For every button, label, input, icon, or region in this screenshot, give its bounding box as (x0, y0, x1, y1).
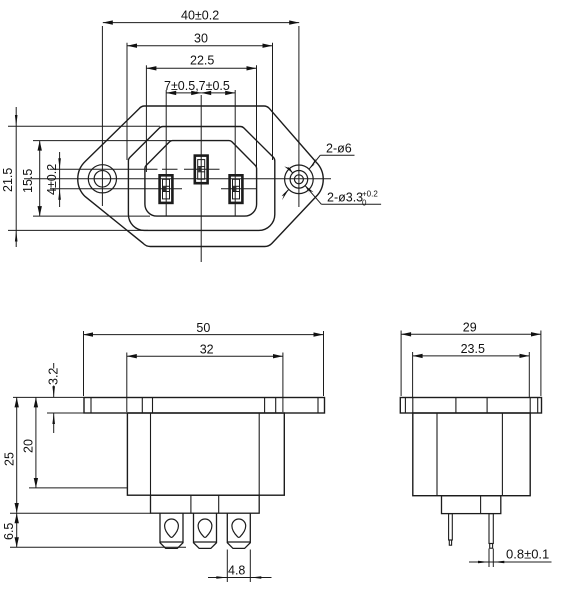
svg-text:2-ø3.3: 2-ø3.3 (327, 191, 363, 205)
left pin vertical crosshair / 7 extension (165, 90, 167, 216)
svg-text:40±0.2: 40±0.2 (181, 9, 219, 23)
svg-text:3.2: 3.2 (47, 368, 61, 385)
svg-text:+0.2: +0.2 (362, 190, 378, 199)
svg-text:0: 0 (362, 199, 367, 208)
top view: outer flange outline (78, 106, 323, 247)
dimension 7±0.5 7±0.5 (166, 92, 235, 94)
svg-text:0.8±0.1: 0.8±0.1 (506, 547, 549, 562)
top view: middle body outline 30x21.5 (128, 126, 274, 230)
body box (413, 413, 530, 496)
right mounting hole (ø6 outer) (285, 165, 314, 194)
top view: recess outline 22.5x15.5 (145, 141, 257, 217)
dimension 29 (401, 331, 541, 397)
L/N pin horizontal center line / 4±0.2 lower extension (50, 188, 182, 190)
svg-text:20: 20 (22, 439, 36, 453)
svg-text:25: 25 (3, 452, 17, 466)
dimension 40±0.2 (103, 22, 299, 24)
step block (442, 496, 501, 514)
svg-text:6.5: 6.5 (2, 523, 16, 540)
svg-text:32: 32 (200, 343, 214, 357)
right pin horizontal crosshair (221, 188, 256, 190)
left pin (blade) (160, 175, 173, 203)
flange plate (side view) (84, 398, 325, 414)
right hole vertical center line / 40 extension (298, 26, 300, 207)
dimension 30 (127, 43, 273, 160)
right pin (blade) (230, 175, 243, 203)
dimension 6.5 (vertical) (10, 513, 186, 547)
dimension 21.5 (vertical, left) (8, 107, 160, 247)
flange plate tick lines (91, 398, 318, 414)
flange plate tick lines (405, 398, 537, 414)
body internal wall right (258, 413, 260, 495)
vertical center line of drawing (200, 95, 202, 262)
svg-text:21.5: 21.5 (1, 168, 15, 192)
right pin vertical crosshair / 7 extension (234, 90, 236, 216)
left hole vertical center line / 40 extension (101, 26, 103, 206)
terminal 2 (194, 513, 217, 548)
dimension 20 (vertical) (29, 397, 127, 488)
svg-text:30: 30 (194, 32, 208, 46)
pin 2 (side view) (489, 514, 493, 549)
svg-text:4.8: 4.8 (228, 564, 245, 578)
step block (151, 495, 260, 513)
dimension 4.8 (208, 550, 272, 583)
dimension 23.5 (413, 352, 530, 397)
right mounting hole small circle (294, 175, 303, 184)
svg-text:50: 50 (196, 321, 210, 335)
dimension 3.2 (vertical) (47, 363, 86, 433)
terminal 3 teardrop hole (232, 519, 246, 537)
earth pin horizontal center line / 4±0.2 upper extension (50, 168, 220, 170)
svg-text:2-ø6: 2-ø6 (326, 142, 352, 156)
dimension 25 (vertical) (10, 397, 151, 513)
body internal wall left (436, 413, 438, 496)
terminal 3 (227, 513, 250, 548)
step divider lines (190, 495, 192, 513)
right mounting hole middle circle (290, 171, 308, 189)
center pin (earth blade) (195, 156, 208, 184)
svg-text:22.5: 22.5 (190, 54, 214, 68)
body box (127, 413, 284, 495)
pin 1 (side view) (449, 514, 453, 546)
dimension 0.8±0.1 (469, 549, 552, 568)
left mounting hole inner ø3.3 (94, 171, 111, 188)
dimension 4±0.2 (vertical) (58, 152, 61, 207)
dimension 50 (83, 331, 324, 396)
terminal 1 teardrop hole (165, 519, 179, 537)
leader 2-ø6 (281, 155, 355, 200)
body internal wall left (150, 413, 152, 495)
svg-text:29: 29 (463, 320, 477, 334)
dimension 22.5 (146, 65, 256, 172)
svg-text:15.5: 15.5 (21, 169, 35, 193)
horizontal center line through holes (24, 178, 331, 180)
terminal 2 teardrop hole (198, 519, 212, 537)
leader 2-ø3.3 (284, 164, 381, 205)
svg-text:4±0.2: 4±0.2 (45, 164, 59, 195)
svg-text:7±0.5,7±0.5: 7±0.5,7±0.5 (164, 79, 230, 93)
terminal 1 (160, 513, 183, 548)
svg-text:23.5: 23.5 (461, 342, 485, 356)
flange plate (side view) (400, 398, 541, 414)
dimension 32 (127, 353, 283, 413)
dimension 15.5 (vertical) (33, 141, 172, 217)
body internal wall right (501, 413, 503, 496)
step divider (480, 496, 482, 514)
left mounting hole (2-ø6 outer) (88, 165, 116, 193)
